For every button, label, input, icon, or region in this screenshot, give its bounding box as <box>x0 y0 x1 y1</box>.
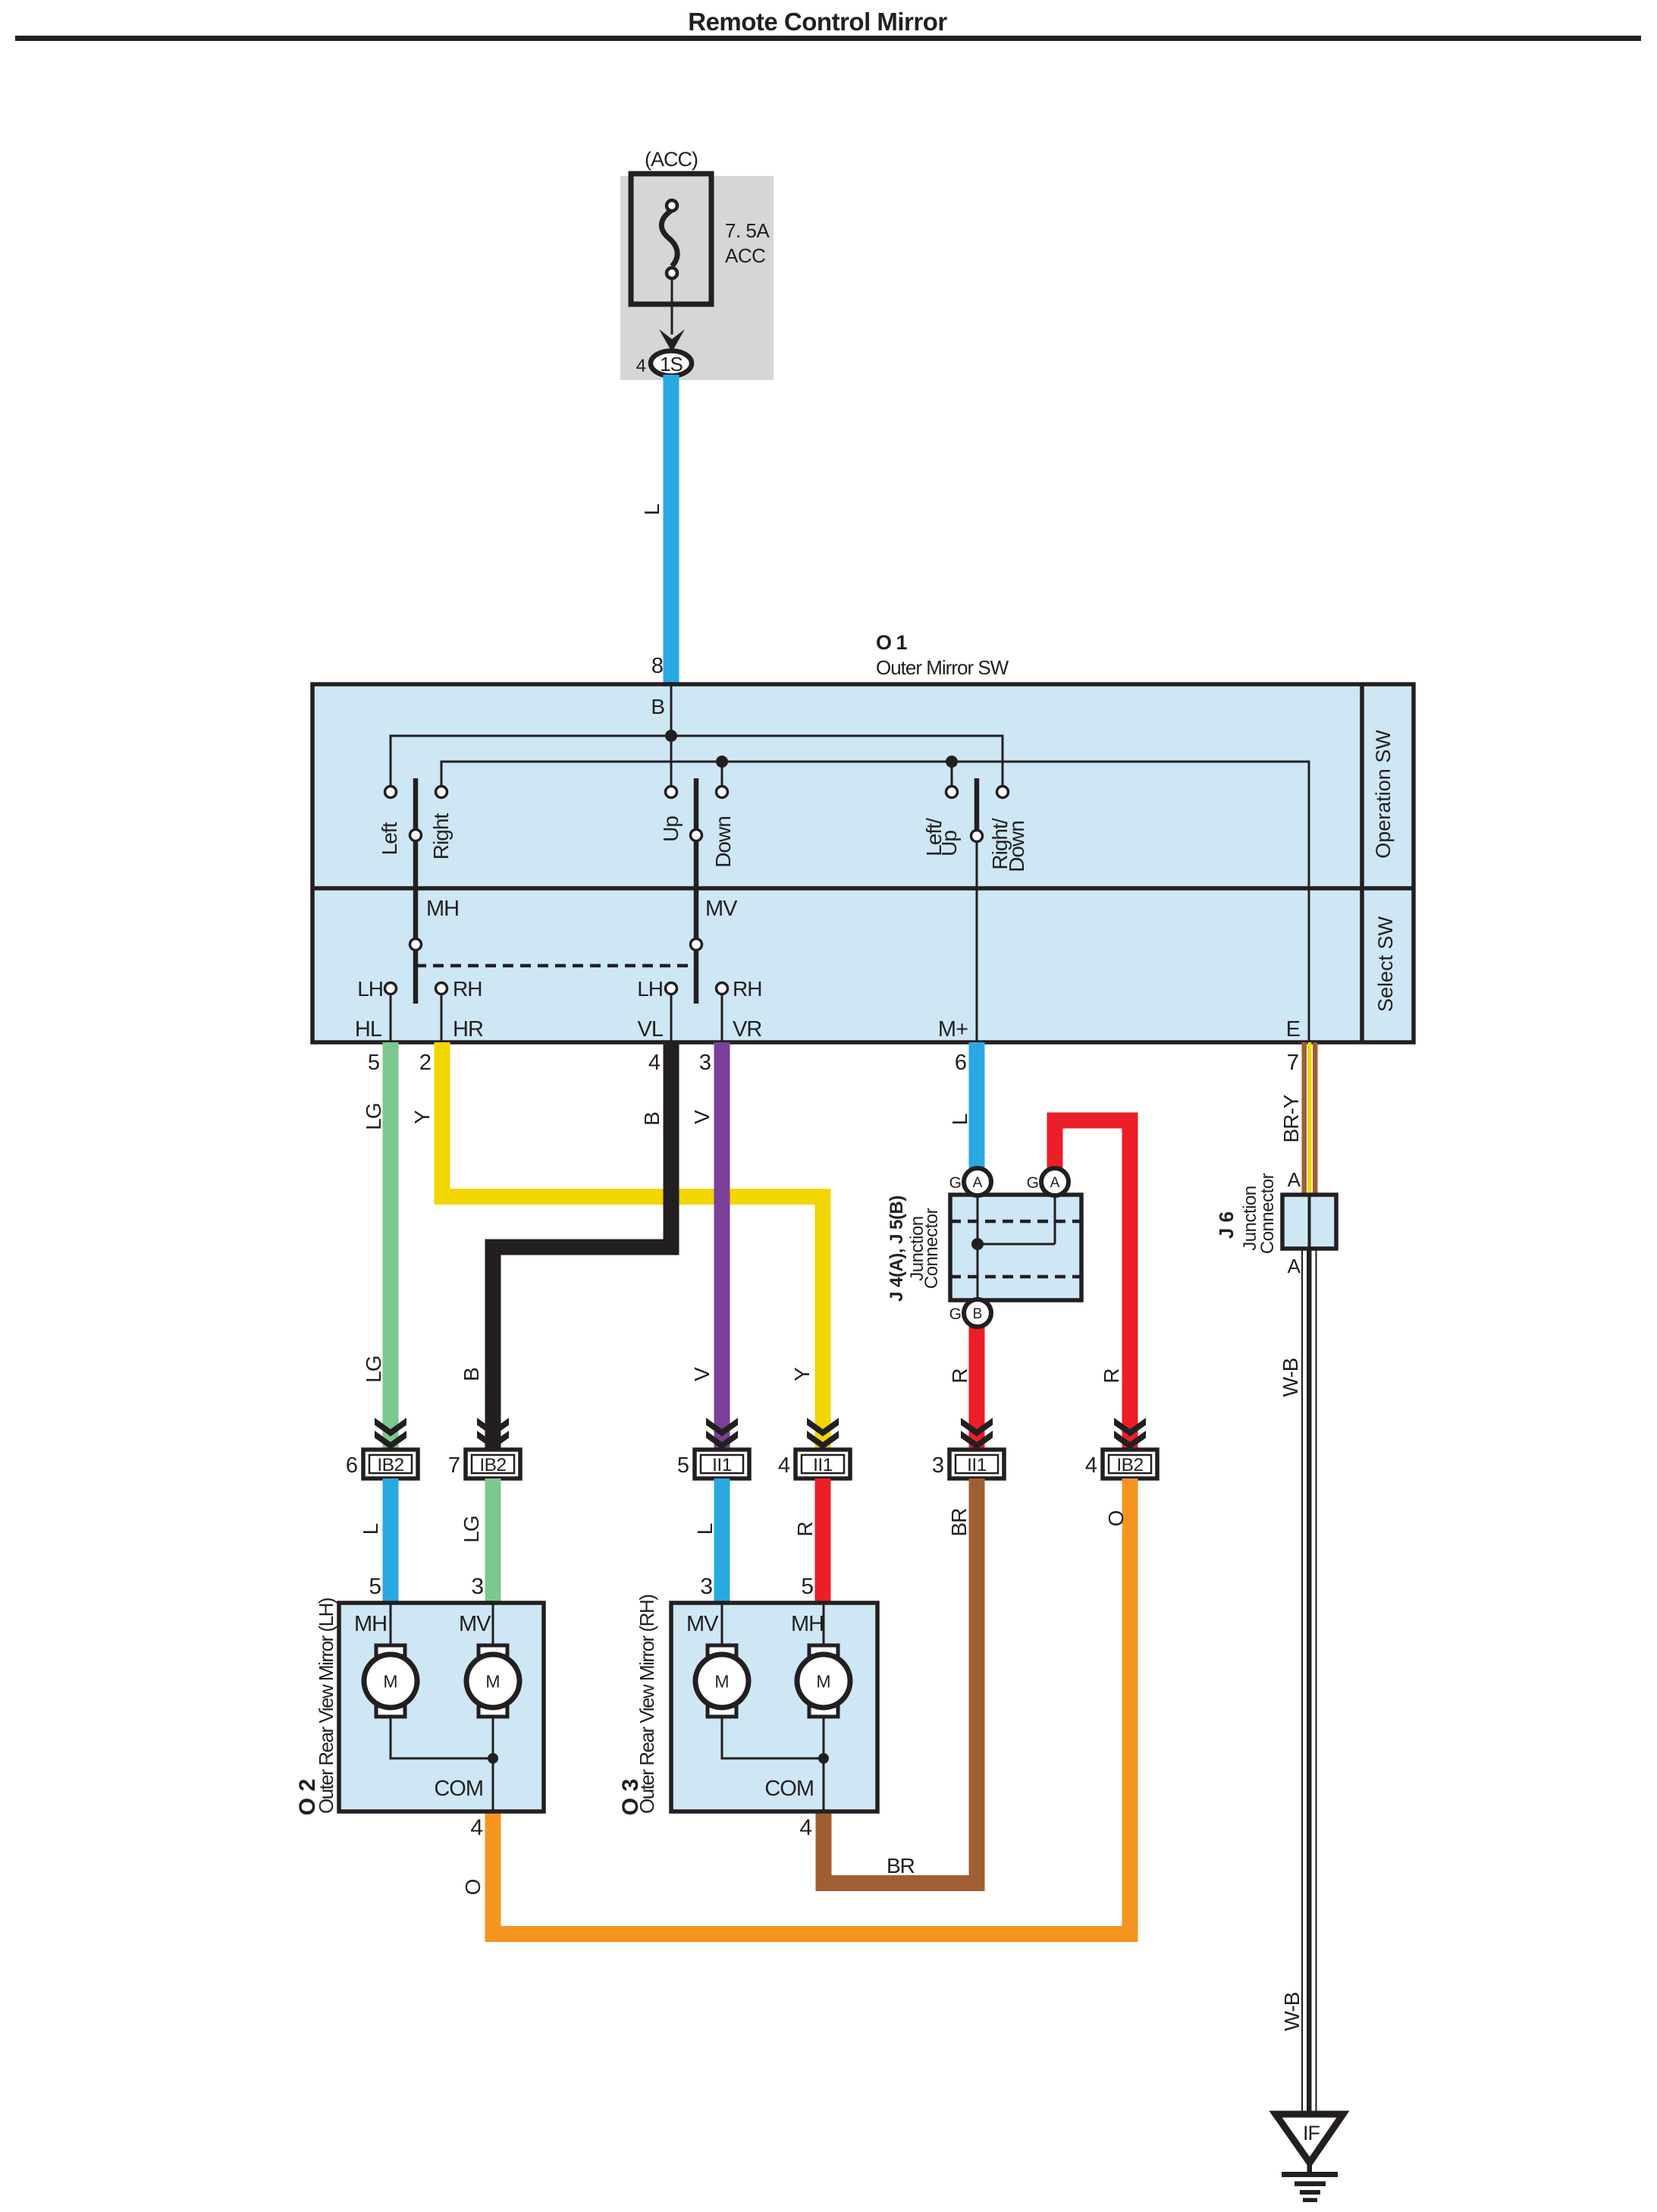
svg-text:6: 6 <box>955 1051 966 1075</box>
svg-text:4: 4 <box>778 1453 790 1478</box>
svg-text:Operation SW: Operation SW <box>1372 730 1395 859</box>
svg-text:LH: LH <box>357 977 383 1001</box>
svg-text:L: L <box>640 504 664 515</box>
svg-text:RH: RH <box>733 977 761 1001</box>
svg-text:7: 7 <box>1287 1051 1298 1075</box>
svg-text:M: M <box>383 1672 397 1692</box>
svg-text:L: L <box>359 1523 382 1535</box>
svg-text:Remote Control Mirror: Remote Control Mirror <box>688 8 947 36</box>
svg-text:M: M <box>714 1672 729 1692</box>
svg-text:ACC: ACC <box>725 244 765 267</box>
svg-text:BR: BR <box>887 1854 915 1877</box>
svg-text:3: 3 <box>699 1051 711 1075</box>
svg-text:4: 4 <box>470 1815 482 1840</box>
svg-text:M: M <box>485 1672 500 1692</box>
svg-text:Select SW: Select SW <box>1374 916 1397 1012</box>
svg-text:MH: MH <box>791 1612 824 1636</box>
svg-text:O 1: O 1 <box>876 631 908 654</box>
svg-text:3: 3 <box>932 1453 943 1478</box>
svg-text:MV: MV <box>459 1612 491 1636</box>
svg-text:5: 5 <box>677 1453 689 1478</box>
svg-text:J 6: J 6 <box>1215 1211 1238 1239</box>
svg-text:W-B: W-B <box>1280 1992 1304 2031</box>
svg-text:Y: Y <box>790 1367 814 1381</box>
svg-text:8: 8 <box>651 654 663 678</box>
svg-text:G: G <box>1027 1174 1038 1192</box>
svg-text:VR: VR <box>733 1017 761 1042</box>
svg-text:B: B <box>651 695 664 718</box>
svg-text:MV: MV <box>686 1612 719 1636</box>
svg-text:O: O <box>461 1879 485 1895</box>
svg-text:5: 5 <box>801 1574 813 1599</box>
svg-text:IF: IF <box>1303 2122 1320 2144</box>
svg-text:Up: Up <box>659 816 683 842</box>
svg-text:LH: LH <box>637 977 663 1001</box>
svg-text:G: G <box>949 1306 961 1323</box>
svg-text:V: V <box>690 1367 714 1381</box>
svg-text:3: 3 <box>471 1574 483 1599</box>
svg-text:O: O <box>1104 1510 1128 1526</box>
svg-text:MH: MH <box>426 897 459 921</box>
svg-text:7: 7 <box>448 1453 460 1478</box>
svg-text:(ACC): (ACC) <box>645 148 698 171</box>
svg-text:3: 3 <box>700 1574 712 1599</box>
svg-text:7. 5A: 7. 5A <box>725 219 770 242</box>
svg-text:LG: LG <box>362 1356 385 1382</box>
svg-text:MH: MH <box>354 1612 387 1636</box>
svg-text:Outer Mirror SW: Outer Mirror SW <box>876 656 1009 679</box>
svg-text:4: 4 <box>636 356 646 376</box>
svg-text:VL: VL <box>638 1017 664 1042</box>
svg-text:IB2: IB2 <box>479 1455 506 1475</box>
svg-text:MV: MV <box>705 897 738 921</box>
svg-text:COM: COM <box>764 1777 814 1801</box>
svg-text:Connector: Connector <box>1257 1173 1278 1254</box>
svg-text:4: 4 <box>1085 1453 1097 1478</box>
svg-text:B: B <box>973 1306 983 1322</box>
svg-text:R: R <box>1100 1368 1123 1383</box>
svg-text:II1: II1 <box>813 1455 833 1475</box>
svg-text:L: L <box>948 1114 971 1125</box>
svg-text:HL: HL <box>355 1017 382 1042</box>
svg-text:A: A <box>1288 1168 1301 1191</box>
svg-text:BR: BR <box>947 1509 971 1537</box>
svg-text:HR: HR <box>453 1017 483 1042</box>
svg-text:RH: RH <box>453 977 482 1001</box>
svg-text:BR-Y: BR-Y <box>1279 1094 1303 1142</box>
svg-text:II1: II1 <box>967 1455 987 1475</box>
svg-text:B: B <box>460 1368 483 1381</box>
svg-text:Outer Rear View Mirror (LH): Outer Rear View Mirror (LH) <box>315 1598 337 1814</box>
svg-text:W-B: W-B <box>1279 1358 1302 1397</box>
svg-text:Left: Left <box>378 822 401 855</box>
svg-text:A: A <box>1050 1175 1060 1191</box>
svg-text:Connector: Connector <box>921 1208 942 1289</box>
svg-text:Down: Down <box>1005 821 1028 872</box>
svg-text:LG: LG <box>362 1103 385 1130</box>
svg-text:E: E <box>1286 1017 1301 1042</box>
svg-text:V: V <box>690 1110 714 1124</box>
svg-text:1S: 1S <box>660 353 683 375</box>
svg-text:Up: Up <box>937 831 961 856</box>
svg-text:IB2: IB2 <box>1116 1455 1143 1475</box>
svg-text:COM: COM <box>434 1777 483 1801</box>
svg-text:II1: II1 <box>712 1455 732 1475</box>
svg-text:M+: M+ <box>938 1017 968 1042</box>
svg-text:6: 6 <box>346 1453 357 1478</box>
svg-text:A: A <box>1288 1255 1301 1277</box>
svg-text:R: R <box>948 1368 971 1383</box>
svg-text:B: B <box>640 1112 664 1126</box>
svg-text:M: M <box>816 1672 830 1692</box>
svg-text:Down: Down <box>711 816 735 868</box>
svg-text:G: G <box>949 1174 961 1192</box>
svg-text:5: 5 <box>369 1574 381 1599</box>
svg-text:4: 4 <box>799 1815 811 1840</box>
svg-text:Outer Rear View Mirror (RH): Outer Rear View Mirror (RH) <box>635 1595 658 1814</box>
svg-text:IB2: IB2 <box>377 1455 403 1475</box>
svg-text:J 4(A), J 5(B): J 4(A), J 5(B) <box>887 1196 907 1302</box>
svg-text:4: 4 <box>648 1051 661 1075</box>
svg-text:A: A <box>973 1175 983 1191</box>
svg-text:L: L <box>693 1523 717 1535</box>
svg-text:LG: LG <box>460 1516 483 1542</box>
svg-text:Right: Right <box>429 813 453 860</box>
svg-text:5: 5 <box>368 1051 379 1075</box>
svg-text:2: 2 <box>419 1051 431 1075</box>
svg-text:Y: Y <box>410 1110 434 1124</box>
svg-text:R: R <box>793 1522 817 1536</box>
